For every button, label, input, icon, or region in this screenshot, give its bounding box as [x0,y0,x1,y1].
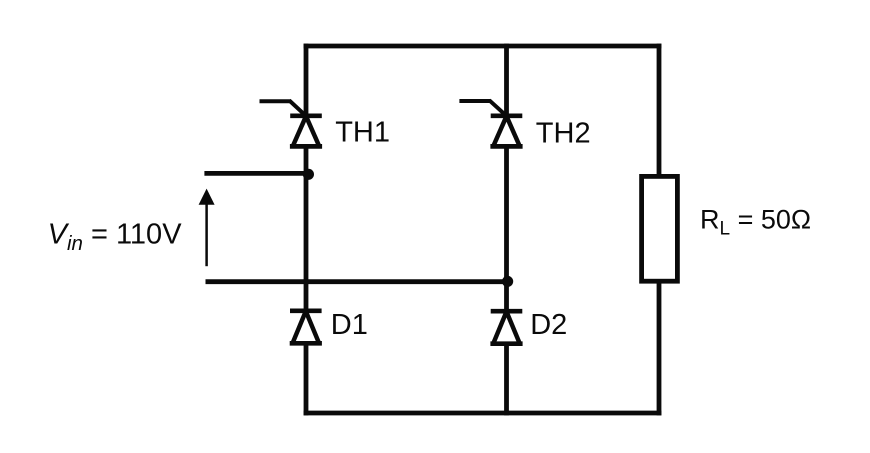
diode D1 [290,311,322,344]
wire Vin bottom lead [206,279,508,284]
svg-text:Vin = 110V: Vin = 110V [48,219,183,255]
diode D2 [490,311,522,344]
thyristor TH1 [260,100,323,146]
wire top bus [304,44,662,49]
Vin polarity arrow [199,189,215,267]
resistor RL body [642,176,678,281]
wire left column lower (D1 anode to bottom bus) [304,343,309,415]
svg-text:TH1: TH1 [335,117,390,149]
svg-text:D2: D2 [530,309,567,341]
wire right column upper (top bus to RL) [657,44,662,177]
wire Vin top lead [204,171,308,176]
wire right column lower (RL to bottom bus) [657,282,662,416]
svg-text:RL = 50Ω: RL = 50Ω [700,205,811,240]
thyristor TH2 [459,100,522,146]
svg-text:D1: D1 [331,309,368,341]
node B junction dot (Vin bottom lead to TH2/D2 column) [502,276,513,287]
wire left column middle (TH1 anode to D1 cathode) [304,146,309,311]
wire left column upper (top bus to TH1 cathode) [304,44,309,116]
wire middle column lower (D2 anode to bottom bus) [504,343,509,415]
wire bottom bus [304,411,662,416]
wire middle column upper (top bus to TH2 cathode) [504,44,509,116]
svg-text:TH2: TH2 [536,117,591,149]
node A junction dot (Vin top lead to TH1/D1 column) [303,169,314,180]
wire middle column middle (TH2 anode to D2 cathode) [504,146,509,311]
